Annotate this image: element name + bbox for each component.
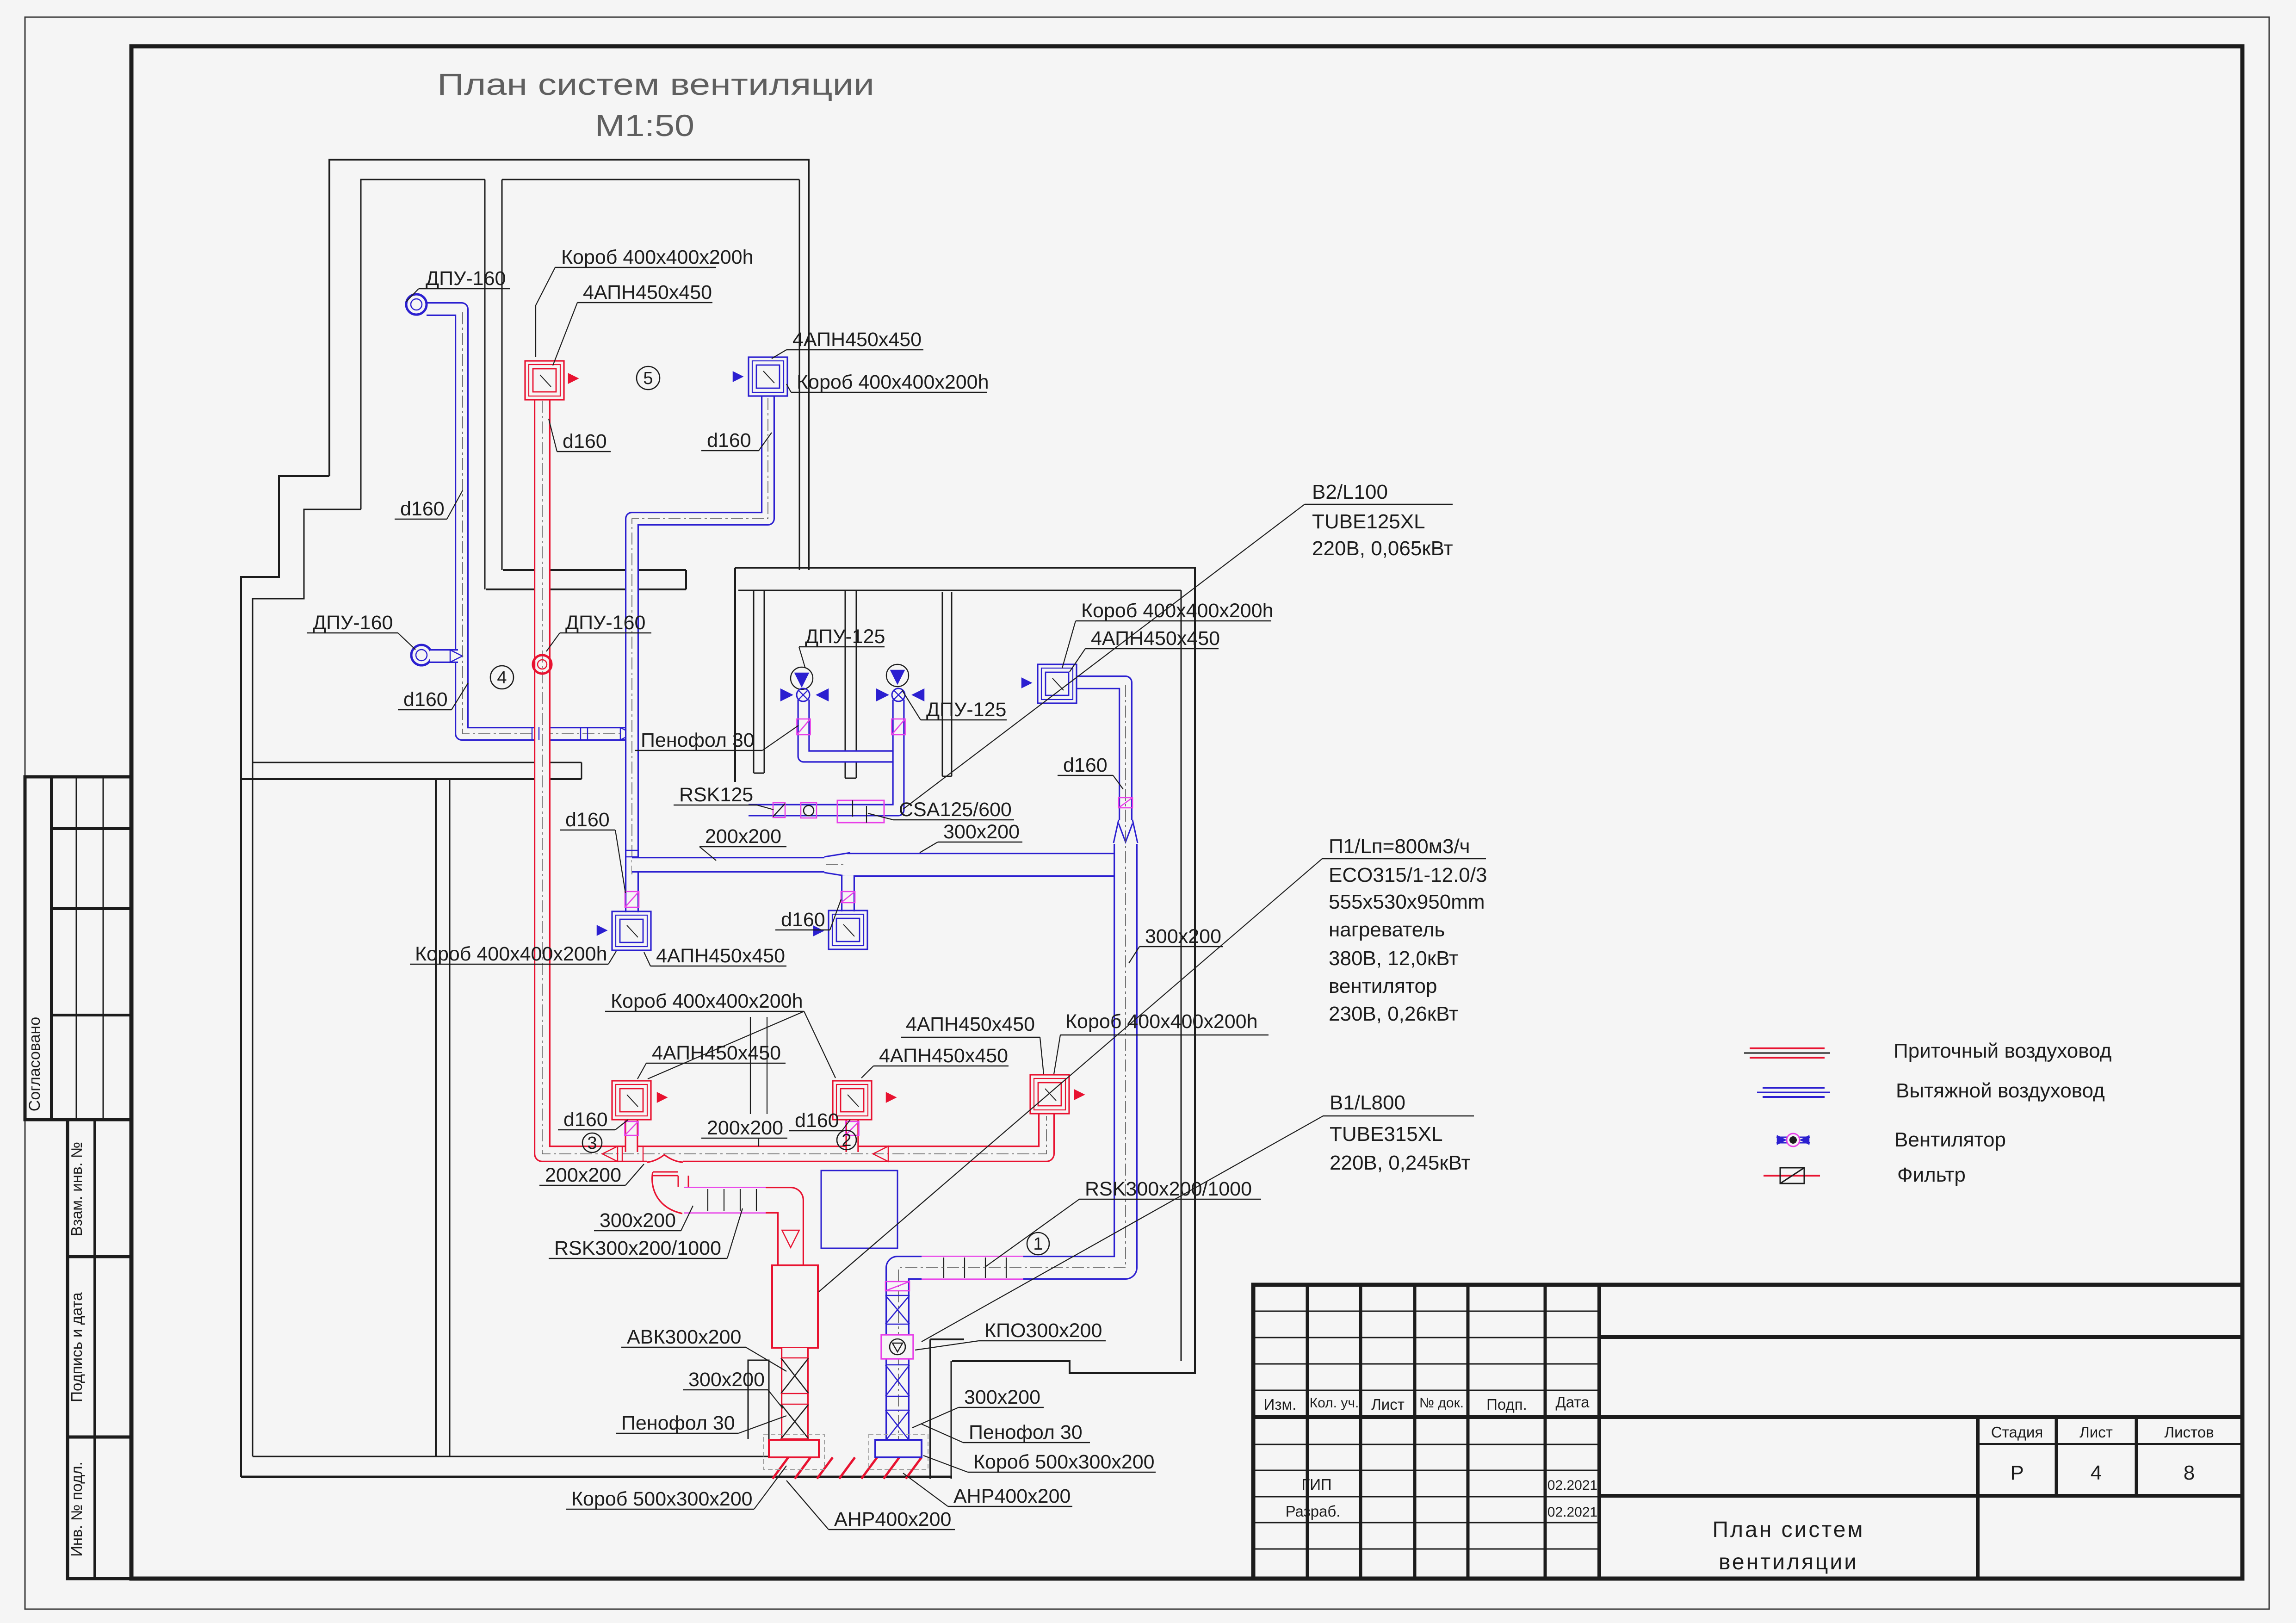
svg-text:380В, 12,0кВт: 380В, 12,0кВт [1329, 947, 1458, 970]
svg-text:RSK125: RSK125 [679, 784, 753, 806]
svg-text:5: 5 [643, 369, 653, 388]
supply grille 4APN450x450 room5 [525, 361, 564, 400]
supply ceiling grille 2 [833, 1081, 872, 1120]
svg-text:М1:50: М1:50 [595, 108, 694, 142]
damper with black circle [801, 803, 817, 818]
svg-text:вентилятор: вентилятор [1329, 975, 1437, 997]
svg-text:d160: d160 [563, 1109, 608, 1131]
fan1 duct down then right to fan2 riser [804, 700, 898, 756]
svg-text:02.2021: 02.2021 [1547, 1478, 1597, 1493]
sidebar table Взам/Подпись/Инв [68, 1120, 131, 1579]
svg-text:d160: d160 [403, 688, 448, 711]
leader line pair from Короб label to 200x200 label [750, 1017, 751, 1114]
svg-text:ДПУ-125: ДПУ-125 [926, 699, 1006, 721]
fan2 duct down + collector to left through wall [749, 700, 898, 810]
svg-text:Короб 400х400х200h: Короб 400х400х200h [415, 943, 607, 965]
svg-text:RSK300х200/1000: RSK300х200/1000 [1085, 1178, 1252, 1200]
svg-text:Кол. уч.: Кол. уч. [1310, 1395, 1359, 1411]
svg-text:ДПУ-125: ДПУ-125 [805, 626, 885, 648]
svg-text:555х530х950mm: 555х530х950mm [1329, 891, 1485, 913]
centerline bathroom fan ducts [804, 701, 897, 756]
svg-text:ДПУ-160: ДПУ-160 [426, 267, 506, 290]
svg-text:Короб 400х400х200h: Короб 400х400х200h [797, 371, 989, 393]
svg-text:300х200: 300х200 [1145, 925, 1221, 948]
svg-text:4: 4 [497, 668, 507, 688]
svg-text:d160: d160 [795, 1109, 839, 1132]
svg-text:АНР400х200: АНР400х200 [834, 1508, 951, 1530]
svg-text:Лист: Лист [2079, 1424, 2113, 1441]
room number 5 [637, 366, 660, 390]
left stepped outer wall [241, 476, 329, 1477]
svg-text:RSK300х200/1000: RSK300х200/1000 [554, 1237, 721, 1259]
svg-text:Пенофол 30: Пенофол 30 [621, 1412, 735, 1434]
bathroom partition 1 [845, 590, 846, 778]
penofol bands on branches [625, 892, 639, 907]
supply shaft flange [769, 1440, 819, 1457]
B1 duct: vertical from T, elbow left, down to shaft [897, 844, 1126, 1441]
svg-text:вентиляции: вентиляции [1719, 1550, 1858, 1574]
supply transition jog from main down to RSK line [647, 1159, 683, 1165]
d160 riser to right-room grille [1076, 682, 1126, 820]
DPU-160 diffuser top [406, 294, 427, 315]
svg-text:300х200: 300х200 [600, 1209, 676, 1232]
RSK300x200/1000 segment on B1 run [922, 1256, 1023, 1280]
centerline right riser [898, 685, 1126, 1448]
svg-text:d160: d160 [781, 909, 825, 931]
bottom-left room top wall [253, 762, 582, 763]
svg-text:TUBE315XL: TUBE315XL [1330, 1123, 1443, 1146]
room5 bottom wall [503, 569, 686, 571]
intake hatch АНР [773, 1457, 788, 1479]
dashed service outline around supply shaft bottom [763, 1434, 824, 1469]
svg-text:Разраб.: Разраб. [1286, 1503, 1341, 1520]
svg-text:d160: d160 [400, 498, 445, 520]
P1 unit outline (blue square) [821, 1171, 897, 1248]
dashed service outline around exhaust shaft bottom [869, 1434, 928, 1469]
svg-text:200х200: 200х200 [545, 1164, 621, 1186]
left stepped inner wall [253, 509, 361, 1456]
svg-text:4АПН450х450: 4АПН450х450 [583, 281, 712, 304]
RSK300x200/1000 slot diffuser section [684, 1187, 774, 1214]
supply ceiling grille right [1030, 1075, 1069, 1114]
exhaust ceiling grille 2 [829, 911, 867, 949]
bathroom partition 2 [942, 592, 943, 776]
walls: top-left block inner [361, 180, 485, 509]
svg-text:1: 1 [1033, 1234, 1043, 1254]
X connectors on exhaust shaft [885, 1295, 910, 1324]
svg-text:Короб 500х300х200: Короб 500х300х200 [973, 1451, 1155, 1473]
centerline left DPU riser [463, 312, 624, 734]
DPU-160 red diffuser on riser [533, 655, 551, 674]
svg-text:d160: d160 [707, 429, 751, 452]
svg-text:220В, 0,245кВт: 220В, 0,245кВт [1330, 1152, 1471, 1174]
flow arrow down [782, 1230, 799, 1247]
svg-text:Лист: Лист [1371, 1396, 1405, 1413]
svg-text:300х200: 300х200 [943, 821, 1020, 843]
bathroom fan 2 [886, 664, 909, 687]
taper 200->300 [824, 853, 850, 877]
svg-text:Фильтр: Фильтр [1897, 1164, 1966, 1186]
svg-text:АВК300х200: АВК300х200 [627, 1326, 741, 1348]
flow arrow at riser junction [620, 728, 632, 740]
svg-text:Листов: Листов [2164, 1424, 2214, 1441]
bottom outer wall [241, 1476, 952, 1478]
svg-text:КПО300х200: КПО300х200 [984, 1319, 1102, 1342]
room number 3 [582, 1133, 602, 1152]
svg-text:200х200: 200х200 [707, 1117, 783, 1139]
legend fan symbol [1776, 1137, 1810, 1138]
svg-text:Приточный воздуховод: Приточный воздуховод [1894, 1040, 2111, 1062]
svg-text:ДПУ-160: ДПУ-160 [565, 612, 645, 634]
bathroom fan 1 [791, 667, 813, 689]
branch to ceiling grille 2 [841, 875, 855, 911]
DPU-160 diffuser mid-left [411, 645, 432, 665]
supply branch grille 3 [625, 1120, 638, 1152]
wall pier at supply shaft [748, 1360, 769, 1439]
wall partition corridor/room5 [484, 180, 486, 589]
svg-text:02.2021: 02.2021 [1547, 1505, 1597, 1520]
svg-text:Вентилятор: Вентилятор [1894, 1128, 2006, 1151]
svg-text:4АПН450х450: 4АПН450х450 [656, 945, 785, 967]
svg-text:ГИП: ГИП [1301, 1476, 1331, 1493]
supply elbow down to unit [766, 1200, 791, 1267]
svg-text:АНР400х200: АНР400х200 [953, 1485, 1071, 1507]
exhaust grille 4APN450x450 room5 [749, 357, 787, 396]
supply riser from room5 grille down + main + right elbow up [542, 399, 1046, 1154]
svg-text:4АПН450х450: 4АПН450х450 [906, 1013, 1035, 1035]
taper d160->300 on right riser [1114, 820, 1138, 843]
centerline supply unit branch [694, 1200, 791, 1266]
wall right of room 4 [631, 589, 632, 898]
svg-text:№ док.: № док. [1419, 1395, 1464, 1411]
P1 supply unit box [772, 1265, 818, 1348]
room number 4 [490, 666, 514, 689]
svg-text:Изм.: Изм. [1264, 1396, 1297, 1413]
flow arrow on DPU branch [450, 650, 462, 662]
svg-text:4АПН450х450: 4АПН450х450 [652, 1042, 781, 1064]
sidebar table Согласовано [25, 777, 131, 1120]
svg-text:Короб 400х400х200h: Короб 400х400х200h [1065, 1010, 1258, 1033]
svg-text:4АПН450х450: 4АПН450х450 [1091, 627, 1220, 650]
svg-text:Пенофол 30: Пенофол 30 [969, 1421, 1083, 1443]
connector ticks on grille1 riser above main [625, 850, 639, 851]
supply branch grille 2 [846, 1120, 859, 1152]
title block (stamp) [1253, 1285, 2242, 1579]
lower-right block outer [735, 568, 1195, 1373]
exhaust main 300x200 [847, 853, 1126, 877]
svg-text:TUBE125XL: TUBE125XL [1312, 510, 1425, 533]
X connectors on supply shaft [781, 1358, 809, 1394]
bottom inner wall [253, 1456, 770, 1457]
centerline exhaust main [638, 864, 1126, 865]
svg-text:Подпись и дата: Подпись и дата [68, 1292, 85, 1402]
svg-text:ДПУ-160: ДПУ-160 [313, 612, 393, 634]
walls: top-left block outer [329, 160, 809, 570]
legend exhaust duct symbol [1763, 1087, 1825, 1089]
svg-text:Взам. инв. №: Взам. инв. № [68, 1142, 85, 1236]
svg-text:200х200: 200х200 [705, 825, 781, 848]
corridor walls [435, 779, 437, 1456]
penofol bands on fan risers [797, 719, 811, 735]
svg-text:d160: d160 [1063, 754, 1108, 776]
B2 duct: room5 grille riser down-left-down [632, 396, 768, 912]
centerline room5 riser [632, 398, 768, 911]
legend supply duct symbol [1750, 1047, 1825, 1049]
exhaust shaft flange [875, 1440, 922, 1457]
svg-text:Р: Р [2010, 1462, 2024, 1484]
legend filter symbol [1764, 1175, 1820, 1177]
svg-text:Вытяжной воздуховод: Вытяжной воздуховод [1896, 1079, 2105, 1102]
svg-text:Инв. № подл.: Инв. № подл. [68, 1462, 85, 1557]
connector ticks on B2 left run [532, 727, 532, 740]
svg-text:4АПН450х450: 4АПН450х450 [792, 328, 922, 351]
exhaust ceiling grille 1 [612, 911, 651, 950]
B2 duct: top DPU-160 run to left riser [427, 309, 625, 734]
svg-text:8: 8 [2184, 1462, 2195, 1484]
svg-text:В2/L100: В2/L100 [1312, 481, 1388, 503]
exhaust main 200x200 [632, 857, 824, 873]
RSK125 valve [773, 803, 785, 818]
svg-text:Стадия: Стадия [1991, 1424, 2043, 1441]
svg-text:П1/Lп=800м3/ч: П1/Lп=800м3/ч [1329, 835, 1470, 858]
svg-text:2: 2 [842, 1131, 851, 1150]
svg-text:Короб 400х400х200h: Короб 400х400х200h [611, 990, 803, 1012]
svg-text:300х200: 300х200 [964, 1386, 1040, 1408]
CSA125/600 silencer [837, 800, 884, 823]
bathroom west wall [753, 590, 755, 773]
svg-text:Согласовано: Согласовано [26, 1017, 43, 1111]
svg-text:d160: d160 [563, 430, 607, 452]
exhaust grille right room [1038, 664, 1077, 703]
svg-text:300х200: 300х200 [688, 1369, 765, 1391]
branch to ceiling grille 1 [625, 874, 639, 911]
B2 duct: mid-left DPU-160 branch [430, 649, 458, 663]
flow arrows on supply main [602, 1146, 618, 1162]
room number 1 [1027, 1233, 1049, 1255]
B1 fan box КПО [881, 1335, 913, 1359]
room number 2 [837, 1130, 856, 1150]
lower-right block inner [738, 590, 1181, 591]
svg-text:CSA125/600: CSA125/600 [899, 799, 1012, 821]
connector ticks on supply main [622, 1146, 623, 1162]
shaft room walls [929, 1339, 931, 1479]
svg-text:В1/L800: В1/L800 [1330, 1091, 1405, 1114]
svg-text:Короб 400х400х200h: Короб 400х400х200h [1081, 600, 1274, 622]
supply ceiling grille 3 [612, 1081, 651, 1120]
svg-text:нагреватель: нагреватель [1329, 918, 1445, 941]
centerline supply riser and main [542, 401, 1046, 1154]
supply shaft below unit [781, 1348, 809, 1441]
svg-text:4АПН450х450: 4АПН450х450 [879, 1045, 1008, 1067]
svg-text:Дата: Дата [1555, 1394, 1590, 1411]
svg-text:План систем: План систем [1713, 1518, 1865, 1542]
svg-text:3: 3 [587, 1134, 597, 1153]
svg-text:220В, 0,065кВт: 220В, 0,065кВт [1312, 537, 1453, 560]
svg-text:230В, 0,26кВт: 230В, 0,26кВт [1329, 1003, 1458, 1025]
svg-text:4: 4 [2091, 1462, 2102, 1484]
svg-text:Подп.: Подп. [1486, 1396, 1527, 1413]
svg-text:ECO315/1-12.0/3: ECO315/1-12.0/3 [1329, 864, 1487, 886]
svg-text:Пенофол 30: Пенофол 30 [641, 729, 755, 751]
svg-text:Короб 400х400х200h: Короб 400х400х200h [561, 246, 754, 268]
svg-text:Короб 500х300х200: Короб 500х300х200 [571, 1488, 753, 1510]
svg-text:d160: d160 [565, 809, 610, 831]
svg-text:План систем вентиляции: План систем вентиляции [437, 67, 874, 101]
